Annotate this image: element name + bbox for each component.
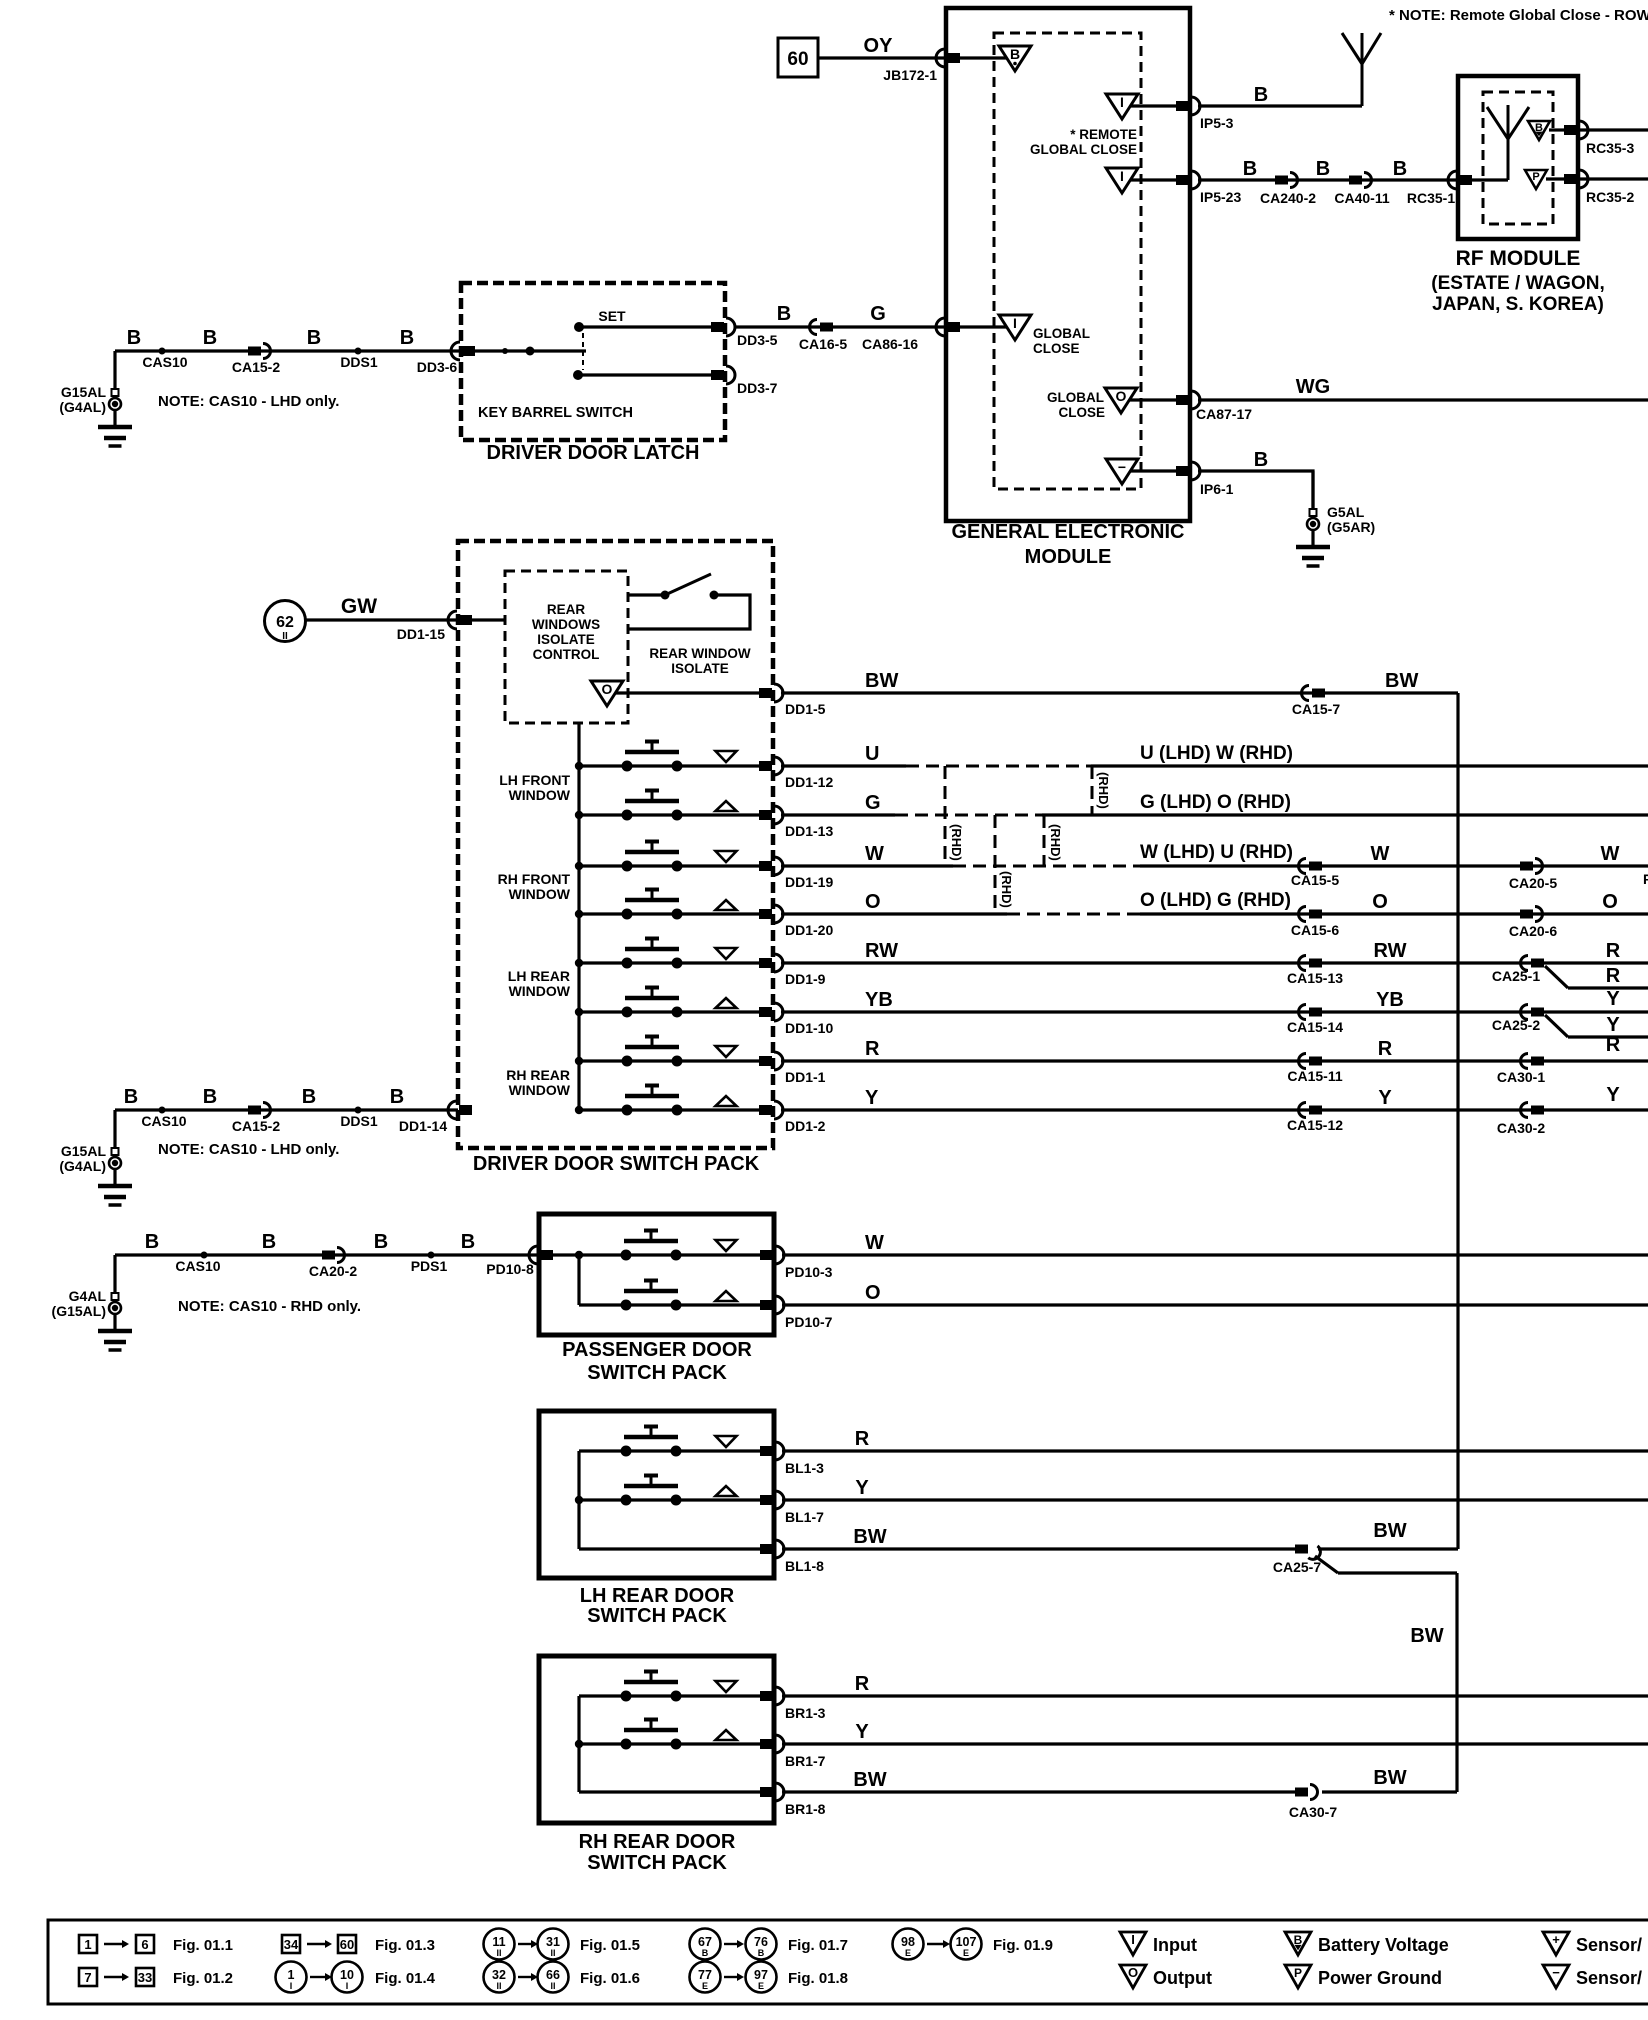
svg-text:W: W xyxy=(865,1232,884,1254)
svg-text:W (LHD) U (RHD): W (LHD) U (RHD) xyxy=(1140,842,1293,863)
svg-text:GLOBAL: GLOBAL xyxy=(1033,326,1090,341)
svg-text:E: E xyxy=(702,1981,708,1991)
svg-text:O: O xyxy=(865,1282,881,1304)
svg-text:Y: Y xyxy=(855,1477,869,1499)
svg-text:CONTROL: CONTROL xyxy=(533,647,600,662)
svg-text:DD1-1: DD1-1 xyxy=(785,1069,826,1085)
svg-text:JAPAN, S. KOREA): JAPAN, S. KOREA) xyxy=(1432,294,1604,315)
svg-text:BW: BW xyxy=(1410,1625,1443,1647)
svg-text:RF MODULE: RF MODULE xyxy=(1456,247,1581,270)
svg-text:DDS1: DDS1 xyxy=(340,1113,378,1129)
svg-text:CLOSE: CLOSE xyxy=(1058,405,1105,420)
svg-text:YB: YB xyxy=(1376,989,1404,1011)
svg-text:1: 1 xyxy=(84,1937,91,1952)
svg-text:(RHD): (RHD) xyxy=(999,871,1014,908)
svg-text:CA15-11: CA15-11 xyxy=(1287,1068,1342,1084)
svg-text:SWITCH PACK: SWITCH PACK xyxy=(587,1362,727,1384)
svg-text:DD3-6: DD3-6 xyxy=(417,359,458,375)
svg-text:IP6-1: IP6-1 xyxy=(1200,481,1234,497)
svg-text:B: B xyxy=(1294,1933,1303,1947)
svg-text:DD1-20: DD1-20 xyxy=(785,922,833,938)
svg-text:G (LHD) O (RHD): G (LHD) O (RHD) xyxy=(1140,792,1291,813)
svg-text:GLOBAL CLOSE: GLOBAL CLOSE xyxy=(1030,142,1137,157)
svg-text:NOTE: CAS10 - LHD only.: NOTE: CAS10 - LHD only. xyxy=(158,1141,339,1158)
svg-text:B: B xyxy=(1010,46,1020,62)
svg-text:RC35-1: RC35-1 xyxy=(1407,190,1455,206)
svg-text:PASSENGER DOOR: PASSENGER DOOR xyxy=(562,1339,752,1361)
svg-text:O: O xyxy=(1372,891,1388,913)
svg-text:DRIVER DOOR SWITCH PACK: DRIVER DOOR SWITCH PACK xyxy=(473,1153,760,1175)
svg-text:I: I xyxy=(1120,168,1124,184)
svg-text:II: II xyxy=(496,1981,501,1991)
svg-text:WINDOW: WINDOW xyxy=(509,787,571,803)
svg-text:7: 7 xyxy=(84,1970,91,1985)
svg-text:B: B xyxy=(758,1948,765,1958)
svg-text:I: I xyxy=(1131,1932,1135,1947)
svg-text:LH REAR DOOR: LH REAR DOOR xyxy=(580,1585,735,1607)
svg-text:CAS10: CAS10 xyxy=(142,354,187,370)
svg-text:R: R xyxy=(1378,1038,1393,1060)
svg-text:(G15AL): (G15AL) xyxy=(52,1303,106,1319)
svg-text:RH REAR DOOR: RH REAR DOOR xyxy=(579,1831,736,1853)
svg-text:G15AL: G15AL xyxy=(61,384,107,400)
svg-text:CA86-16: CA86-16 xyxy=(862,336,918,352)
svg-text:I: I xyxy=(290,1981,293,1991)
svg-text:B: B xyxy=(374,1231,388,1253)
svg-text:WINDOW: WINDOW xyxy=(509,983,571,999)
svg-text:+: + xyxy=(1552,1932,1560,1947)
svg-text:1: 1 xyxy=(288,1968,295,1982)
svg-text:ISOLATE: ISOLATE xyxy=(537,632,595,647)
svg-text:NOTE: CAS10 - RHD only.: NOTE: CAS10 - RHD only. xyxy=(178,1298,361,1315)
svg-text:Y: Y xyxy=(1378,1087,1392,1109)
svg-text:−: − xyxy=(1552,1965,1560,1980)
svg-text:CA15-2: CA15-2 xyxy=(232,1118,280,1134)
svg-text:B: B xyxy=(390,1086,404,1108)
svg-text:Y: Y xyxy=(1606,988,1620,1010)
svg-text:BW: BW xyxy=(1385,670,1418,692)
svg-text:CA15-5: CA15-5 xyxy=(1291,872,1339,888)
svg-text:MODULE: MODULE xyxy=(1025,546,1112,568)
svg-text:B: B xyxy=(302,1086,316,1108)
svg-text:BR1-8: BR1-8 xyxy=(785,1801,826,1817)
svg-text:60: 60 xyxy=(787,49,808,70)
svg-text:Fig. 01.3: Fig. 01.3 xyxy=(375,1937,435,1954)
svg-text:CA15-7: CA15-7 xyxy=(1292,701,1340,717)
svg-text:107: 107 xyxy=(956,1935,977,1949)
svg-text:31: 31 xyxy=(546,1935,560,1949)
svg-text:R: R xyxy=(1606,940,1621,962)
svg-text:(G4AL): (G4AL) xyxy=(59,1158,106,1174)
svg-text:O: O xyxy=(1128,1965,1138,1980)
svg-text:R: R xyxy=(1606,965,1621,987)
svg-text:CA15-14: CA15-14 xyxy=(1287,1019,1343,1035)
svg-text:BL1-8: BL1-8 xyxy=(785,1558,824,1574)
svg-text:BW: BW xyxy=(865,670,898,692)
svg-text:O: O xyxy=(1602,891,1618,913)
svg-text:LH FRONT: LH FRONT xyxy=(499,772,570,788)
svg-text:II: II xyxy=(550,1981,555,1991)
svg-text:B: B xyxy=(777,303,791,325)
svg-text:(RHD): (RHD) xyxy=(949,824,964,861)
svg-text:I: I xyxy=(346,1981,349,1991)
svg-text:DD1-9: DD1-9 xyxy=(785,971,826,987)
svg-text:B: B xyxy=(1243,158,1257,180)
svg-text:DD1-14: DD1-14 xyxy=(399,1118,447,1134)
svg-text:BW: BW xyxy=(1373,1767,1406,1789)
svg-text:P: P xyxy=(1643,871,1648,887)
svg-text:PDS1: PDS1 xyxy=(411,1258,448,1274)
svg-text:CA30-2: CA30-2 xyxy=(1497,1120,1545,1136)
svg-text:Fig. 01.9: Fig. 01.9 xyxy=(993,1937,1053,1954)
svg-text:O: O xyxy=(865,891,881,913)
svg-text:DD1-2: DD1-2 xyxy=(785,1118,826,1134)
svg-text:B: B xyxy=(127,327,141,349)
svg-text:60: 60 xyxy=(340,1937,354,1952)
svg-text:RW: RW xyxy=(865,940,898,962)
svg-text:BR1-7: BR1-7 xyxy=(785,1753,826,1769)
svg-text:DD1-15: DD1-15 xyxy=(397,626,445,642)
svg-text:CA15-6: CA15-6 xyxy=(1291,922,1339,938)
svg-text:PD10-8: PD10-8 xyxy=(486,1261,534,1277)
svg-text:W: W xyxy=(1601,843,1620,865)
svg-text:CA25-7: CA25-7 xyxy=(1273,1559,1321,1575)
svg-text:IP5-23: IP5-23 xyxy=(1200,189,1241,205)
svg-text:I: I xyxy=(1120,94,1124,110)
svg-text:DD3-7: DD3-7 xyxy=(737,380,778,396)
svg-text:II: II xyxy=(496,1948,501,1958)
svg-text:SET: SET xyxy=(598,308,626,324)
svg-text:II: II xyxy=(282,631,288,642)
svg-text:Input: Input xyxy=(1153,1935,1197,1955)
svg-text:RC35-2: RC35-2 xyxy=(1586,189,1634,205)
svg-text:R: R xyxy=(855,1428,870,1450)
svg-text:RH FRONT: RH FRONT xyxy=(498,871,571,887)
svg-text:I: I xyxy=(1013,315,1017,331)
svg-text:DD3-5: DD3-5 xyxy=(737,332,778,348)
svg-text:CA30-1: CA30-1 xyxy=(1497,1069,1545,1085)
svg-text:Y: Y xyxy=(855,1721,869,1743)
svg-text:DD1-5: DD1-5 xyxy=(785,701,826,717)
svg-text:CA15-13: CA15-13 xyxy=(1287,970,1343,986)
svg-text:R: R xyxy=(855,1673,870,1695)
svg-text:R: R xyxy=(865,1038,880,1060)
svg-text:Sensor/: Sensor/ xyxy=(1576,1935,1642,1955)
svg-text:WG: WG xyxy=(1296,376,1330,398)
svg-text:CA40-11: CA40-11 xyxy=(1334,190,1389,206)
svg-text:B: B xyxy=(203,1086,217,1108)
svg-text:66: 66 xyxy=(546,1968,560,1982)
svg-text:BL1-7: BL1-7 xyxy=(785,1509,824,1525)
svg-text:GW: GW xyxy=(341,595,377,618)
svg-text:11: 11 xyxy=(492,1935,505,1949)
svg-text:PD10-7: PD10-7 xyxy=(785,1314,833,1330)
svg-text:ISOLATE: ISOLATE xyxy=(671,661,729,676)
svg-text:CA20-2: CA20-2 xyxy=(309,1263,357,1279)
svg-text:Fig. 01.1: Fig. 01.1 xyxy=(173,1937,233,1954)
svg-text:YB: YB xyxy=(865,989,893,1011)
svg-text:BR1-3: BR1-3 xyxy=(785,1705,826,1721)
svg-text:RW: RW xyxy=(1374,940,1407,962)
svg-text:CA20-5: CA20-5 xyxy=(1509,875,1557,891)
svg-text:CA15-12: CA15-12 xyxy=(1287,1117,1343,1133)
svg-text:LH REAR: LH REAR xyxy=(508,968,570,984)
svg-text:U (LHD) W (RHD): U (LHD) W (RHD) xyxy=(1140,743,1293,764)
svg-text:B: B xyxy=(145,1231,159,1253)
svg-text:BW: BW xyxy=(853,1526,886,1548)
svg-text:98: 98 xyxy=(901,1935,915,1949)
svg-text:O (LHD) G (RHD): O (LHD) G (RHD) xyxy=(1140,890,1291,911)
svg-text:O: O xyxy=(1116,388,1127,404)
svg-text:Y: Y xyxy=(1606,1014,1620,1036)
svg-text:Fig. 01.2: Fig. 01.2 xyxy=(173,1970,233,1987)
svg-text:R: R xyxy=(1606,1034,1621,1056)
svg-text:B: B xyxy=(124,1086,138,1108)
svg-text:DDS1: DDS1 xyxy=(340,354,378,370)
svg-text:6: 6 xyxy=(141,1937,148,1952)
svg-text:B: B xyxy=(1393,158,1407,180)
svg-text:B: B xyxy=(203,327,217,349)
svg-text:CLOSE: CLOSE xyxy=(1033,341,1080,356)
svg-text:JB172-1: JB172-1 xyxy=(883,67,937,83)
svg-text:W: W xyxy=(1371,843,1390,865)
svg-text:97: 97 xyxy=(754,1968,768,1982)
svg-text:76: 76 xyxy=(754,1935,768,1949)
svg-text:Fig. 01.8: Fig. 01.8 xyxy=(788,1970,848,1987)
svg-text:RC35-3: RC35-3 xyxy=(1586,140,1634,156)
svg-text:(RHD): (RHD) xyxy=(1048,824,1063,861)
svg-text:DD1-13: DD1-13 xyxy=(785,823,833,839)
svg-text:P: P xyxy=(1532,171,1539,183)
svg-text:WINDOWS: WINDOWS xyxy=(532,617,600,632)
svg-text:PD10-3: PD10-3 xyxy=(785,1264,833,1280)
svg-text:WINDOW: WINDOW xyxy=(509,1082,571,1098)
svg-text:Fig. 01.4: Fig. 01.4 xyxy=(375,1970,436,1987)
svg-text:G4AL: G4AL xyxy=(69,1288,107,1304)
svg-text:W: W xyxy=(865,843,884,865)
svg-text:II: II xyxy=(550,1948,555,1958)
svg-text:G5AL: G5AL xyxy=(1327,504,1365,520)
svg-text:G: G xyxy=(865,792,881,814)
svg-text:G: G xyxy=(870,303,886,325)
svg-text:B: B xyxy=(1254,449,1268,471)
svg-text:Fig. 01.5: Fig. 01.5 xyxy=(580,1937,640,1954)
svg-text:10: 10 xyxy=(340,1968,354,1982)
svg-text:CA16-5: CA16-5 xyxy=(799,336,847,352)
svg-text:CA240-2: CA240-2 xyxy=(1260,190,1316,206)
svg-text:B: B xyxy=(1254,84,1268,106)
svg-text:NOTE: CAS10 - LHD only.: NOTE: CAS10 - LHD only. xyxy=(158,393,339,410)
svg-text:Fig. 01.7: Fig. 01.7 xyxy=(788,1937,848,1954)
svg-text:E: E xyxy=(758,1981,764,1991)
svg-text:SWITCH PACK: SWITCH PACK xyxy=(587,1852,727,1874)
svg-text:B: B xyxy=(262,1231,276,1253)
svg-text:BW: BW xyxy=(853,1769,886,1791)
svg-text:* REMOTE: * REMOTE xyxy=(1070,127,1137,142)
svg-text:BL1-3: BL1-3 xyxy=(785,1460,824,1476)
svg-text:REAR WINDOW: REAR WINDOW xyxy=(649,646,750,661)
svg-text:−: − xyxy=(1118,459,1126,475)
svg-text:(ESTATE / WAGON,: (ESTATE / WAGON, xyxy=(1431,273,1604,294)
svg-text:BW: BW xyxy=(1373,1520,1406,1542)
svg-text:Sensor/: Sensor/ xyxy=(1576,1968,1642,1988)
svg-text:CA25-1: CA25-1 xyxy=(1492,968,1540,984)
svg-text:Y: Y xyxy=(865,1087,879,1109)
svg-text:67: 67 xyxy=(698,1935,712,1949)
svg-text:CA87-17: CA87-17 xyxy=(1196,406,1252,422)
svg-text:34: 34 xyxy=(284,1937,299,1952)
svg-text:B: B xyxy=(400,327,414,349)
svg-text:REAR: REAR xyxy=(547,602,586,617)
svg-text:33: 33 xyxy=(138,1970,152,1985)
svg-text:DD1-19: DD1-19 xyxy=(785,874,833,890)
svg-text:Fig. 01.6: Fig. 01.6 xyxy=(580,1970,640,1987)
svg-text:DD1-10: DD1-10 xyxy=(785,1020,833,1036)
svg-text:(G5AR): (G5AR) xyxy=(1327,519,1375,535)
svg-text:Power Ground: Power Ground xyxy=(1318,1968,1442,1988)
svg-text:OY: OY xyxy=(864,35,894,57)
svg-text:62: 62 xyxy=(276,614,294,631)
svg-text:RH REAR: RH REAR xyxy=(506,1067,570,1083)
svg-text:Y: Y xyxy=(1606,1084,1620,1106)
svg-text:CA15-2: CA15-2 xyxy=(232,359,280,375)
svg-text:Battery Voltage: Battery Voltage xyxy=(1318,1935,1449,1955)
svg-text:IP5-3: IP5-3 xyxy=(1200,115,1234,131)
svg-text:SWITCH PACK: SWITCH PACK xyxy=(587,1605,727,1627)
svg-text:U: U xyxy=(865,743,879,765)
svg-text:B: B xyxy=(1316,158,1330,180)
svg-text:DRIVER DOOR LATCH: DRIVER DOOR LATCH xyxy=(487,442,700,464)
svg-text:WINDOW: WINDOW xyxy=(509,886,571,902)
svg-text:E: E xyxy=(905,1948,911,1958)
svg-text:GENERAL ELECTRONIC: GENERAL ELECTRONIC xyxy=(952,521,1185,543)
svg-text:DD1-12: DD1-12 xyxy=(785,774,833,790)
svg-text:G15AL: G15AL xyxy=(61,1143,107,1159)
svg-text:E: E xyxy=(963,1948,969,1958)
svg-text:CAS10: CAS10 xyxy=(175,1258,220,1274)
svg-text:CA20-6: CA20-6 xyxy=(1509,923,1557,939)
svg-text:CA25-2: CA25-2 xyxy=(1492,1017,1540,1033)
svg-text:B: B xyxy=(461,1231,475,1253)
svg-text:B: B xyxy=(307,327,321,349)
svg-text:* NOTE: Remote Global Close -: * NOTE: Remote Global Close - ROW vehicl… xyxy=(1389,7,1648,24)
svg-text:KEY BARREL SWITCH: KEY BARREL SWITCH xyxy=(478,405,633,421)
svg-text:77: 77 xyxy=(698,1968,712,1982)
svg-text:(G4AL): (G4AL) xyxy=(59,399,106,415)
svg-text:P: P xyxy=(1294,1966,1302,1980)
svg-text:GLOBAL: GLOBAL xyxy=(1047,390,1104,405)
svg-text:O: O xyxy=(602,681,613,697)
svg-text:CA30-7: CA30-7 xyxy=(1289,1804,1337,1820)
svg-text:32: 32 xyxy=(492,1968,506,1982)
svg-text:CAS10: CAS10 xyxy=(141,1113,186,1129)
svg-text:(RHD): (RHD) xyxy=(1096,772,1111,809)
svg-text:Output: Output xyxy=(1153,1968,1212,1988)
svg-text:B: B xyxy=(702,1948,709,1958)
